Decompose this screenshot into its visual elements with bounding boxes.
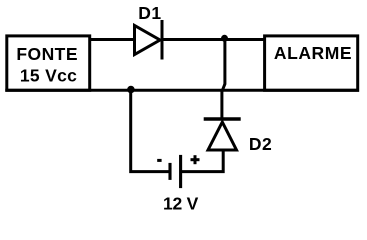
wire (vertical from rail down to D2 cathode) [220, 91, 223, 120]
svg-text:D2: D2 [249, 134, 272, 154]
wire (top: FONTE to D1 anode) [90, 38, 137, 41]
svg-text:FONTE: FONTE [16, 44, 78, 64]
battery long plate (+) [179, 155, 182, 188]
node junction dot (top wire) [221, 35, 228, 42]
wire (top: D1 cathode to ALARME, through junction) [162, 38, 265, 41]
svg-text:D1: D1 [138, 3, 161, 23]
label + (battery positive) [191, 155, 200, 164]
block ALARME (box) [265, 36, 358, 90]
wire (bottom rail) [5, 89, 359, 92]
battery B1 [170, 155, 181, 188]
label - (battery negative) [157, 159, 161, 162]
battery short plate (-) [168, 163, 171, 180]
wire (D2 anode down and left to battery + terminal) [182, 149, 223, 172]
diode D2 [204, 119, 241, 150]
block FONTE (box) [7, 36, 90, 90]
svg-text:15 Vcc: 15 Vcc [20, 66, 77, 86]
node junction dot (bottom rail) [127, 86, 135, 94]
wire (battery - terminal left and up to rail junction) [131, 89, 169, 172]
svg-text:ALARME: ALARME [274, 43, 352, 63]
wire (jog crossing the bottom rail) [222, 84, 225, 92]
svg-text:12 V: 12 V [163, 193, 199, 213]
wire (vertical from top junction down to rail) [223, 40, 226, 85]
diode D1 [135, 20, 163, 60]
